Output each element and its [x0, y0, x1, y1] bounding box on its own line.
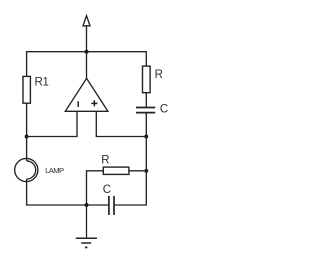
node A junction (inverting input node) [25, 135, 29, 139]
wire left branch mid [26, 103, 28, 158]
svg-text:R1: R1 [35, 76, 49, 88]
wire non-inverting input leg [95, 111, 97, 137]
node C junction [144, 169, 148, 173]
op-amp U1 [65, 78, 108, 111]
wire R to C [145, 93, 147, 107]
resistor R (series) [143, 66, 163, 93]
wire inverting input leg [76, 111, 78, 137]
wire B (non-inverting leg to node B) [96, 136, 146, 138]
wire A (node A to inverting input leg) [27, 136, 77, 138]
lamp [15, 158, 64, 182]
wire right branch vertical [115, 113, 147, 205]
wire top rail [27, 51, 147, 53]
resistor R (parallel) [87, 154, 147, 205]
wire left branch top [26, 51, 28, 76]
wire op-amp output feed [86, 52, 88, 79]
node GND junction [85, 203, 89, 207]
svg-text:R: R [101, 154, 109, 166]
svg-text:C: C [103, 184, 111, 196]
svg-text:R: R [155, 69, 163, 81]
capacitor C (parallel) [103, 184, 114, 215]
ground [76, 205, 97, 247]
node B junction [144, 135, 148, 139]
capacitor C (series) [136, 103, 168, 115]
wire lamp to bottom rail [27, 182, 109, 205]
svg-text:C: C [160, 103, 168, 115]
output arrow [83, 16, 90, 52]
wire right branch top [145, 51, 147, 66]
svg-text:LAMP: LAMP [45, 166, 64, 175]
resistor R1 [23, 76, 49, 103]
node OUT junction [85, 50, 89, 54]
